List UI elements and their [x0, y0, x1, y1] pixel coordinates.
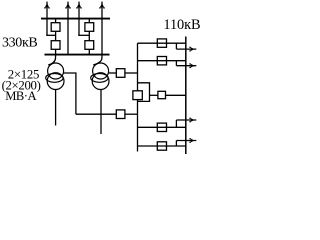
wire row D step	[175, 141, 177, 147]
arrow head line L1	[45, 3, 49, 7]
breaker Q6 (T1 110kV side)	[116, 110, 125, 119]
svg-text:110кВ: 110кВ	[163, 17, 200, 33]
wire row A step	[175, 43, 177, 49]
wire T2 LV stub	[100, 90, 102, 134]
arrow head row A	[191, 47, 195, 51]
breaker Q3	[85, 23, 94, 32]
autotransformer T1 MV winding ellipse	[46, 74, 63, 83]
wire row C outgoing line	[176, 119, 196, 121]
wire feeder row B	[138, 60, 186, 62]
wire T2 MV lead to bus 1	[125, 72, 138, 74]
autotransformer T2 series-winding hook lead	[93, 55, 102, 65]
breaker Q2	[51, 41, 60, 50]
breaker Q8	[157, 39, 166, 47]
330 kV busbar lower horizontal	[45, 54, 110, 56]
wire feeder row A	[138, 42, 186, 44]
autotransformer T2 HV winding circle	[93, 63, 109, 79]
wire chain1 middle link	[55, 31, 57, 40]
breaker Q1	[51, 23, 60, 32]
wire row A outgoing line	[176, 48, 196, 50]
wire T1 MV lead (right, down to 110kV row)	[63, 73, 76, 114]
wire chain2 bottom stub	[88, 49, 90, 54]
wire jog L1 to breaker chain 1	[46, 34, 55, 36]
110 kV bus 2 (right vertical)	[185, 37, 187, 155]
breaker Q12	[157, 142, 166, 150]
autotransformer T1 HV winding circle	[48, 63, 64, 79]
wire line L4 (x=102)	[101, 2, 103, 55]
wire chain2 middle link	[88, 31, 90, 40]
wire chain2 top stub	[88, 19, 90, 23]
autotransformer T1 LV winding circle	[47, 73, 64, 90]
wire row B outgoing line	[176, 65, 196, 67]
wire line L1 (x=47)	[46, 2, 48, 36]
arrow head line L2	[66, 3, 70, 7]
autotransformer T2 MV winding ellipse	[91, 74, 108, 83]
breaker Q7 (bus section)	[133, 91, 142, 100]
breaker Q4	[85, 41, 94, 50]
arrow head line L3	[77, 3, 81, 7]
wire feeder row D	[138, 145, 186, 147]
wire T1 MV row to breaker	[76, 113, 116, 115]
wire T1 LV stub	[55, 90, 57, 126]
wire T2 MV lead	[109, 72, 117, 74]
wire T1 MV row to bus 1	[125, 113, 138, 115]
110 kV bus 1 upper section	[137, 43, 139, 91]
arrow head row D	[191, 139, 195, 143]
wire bus tie branch	[150, 94, 158, 96]
svg-text:МВ·А: МВ·А	[5, 89, 36, 103]
autotransformer T1 series-winding hook lead	[48, 55, 55, 65]
110 kV bus 1 lower section	[137, 100, 139, 152]
autotransformer T2 LV winding circle	[92, 73, 109, 90]
wire bus tie upper tap	[138, 83, 150, 102]
330 kV busbar W330 (top horizontal)	[41, 18, 110, 20]
wire bus tie to bus 2	[166, 94, 186, 96]
wire feeder row C	[138, 126, 186, 128]
wire chain1 bottom stub	[55, 49, 57, 54]
wire row B step	[175, 61, 177, 66]
wire line L2 (x=68)	[67, 2, 69, 55]
arrow head row C	[191, 118, 195, 122]
wire row C step	[175, 120, 177, 127]
breaker Q5 (T2 110kV side)	[116, 69, 125, 78]
breaker Q11	[157, 123, 166, 131]
wire jog L3 to breaker chain 2	[78, 34, 89, 36]
wire chain1 top stub	[55, 19, 57, 23]
arrow head row B	[191, 64, 195, 68]
wire row D outgoing line	[176, 140, 196, 142]
wire line L3 (x=79)	[78, 2, 80, 36]
breaker Q9	[157, 57, 166, 65]
breaker Q10 (bus tie)	[158, 91, 166, 98]
svg-text:330кВ: 330кВ	[2, 36, 37, 51]
arrow head line L4	[100, 3, 104, 7]
